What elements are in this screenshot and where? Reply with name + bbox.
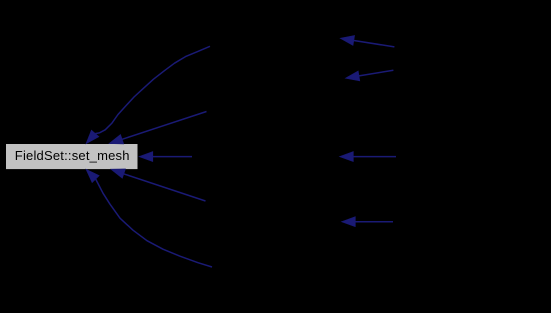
wire edge caller 5 -> set_mesh (bottom curve) [86, 169, 212, 267]
wire edge caller 4 -> set_mesh (lower straight) [111, 169, 206, 201]
node FieldSet::set_mesh (grey box) [6, 144, 138, 169]
wire edge caller 2 -> set_mesh (upper straight) [109, 112, 207, 145]
node label FieldSet::set_mesh [15, 148, 130, 163]
wire edge caller 1 -> set_mesh (top curve) [86, 46, 210, 143]
wire edge right-node -> caller 2 [345, 70, 393, 81]
wire edge right-node -> caller 4 (horizontal) [342, 217, 394, 227]
wire edge right-node -> caller 3 (horizontal) [340, 152, 397, 162]
wire edge right-node -> caller 1 [340, 36, 394, 47]
wire edge caller 3 -> set_mesh (horizontal) [139, 152, 192, 162]
